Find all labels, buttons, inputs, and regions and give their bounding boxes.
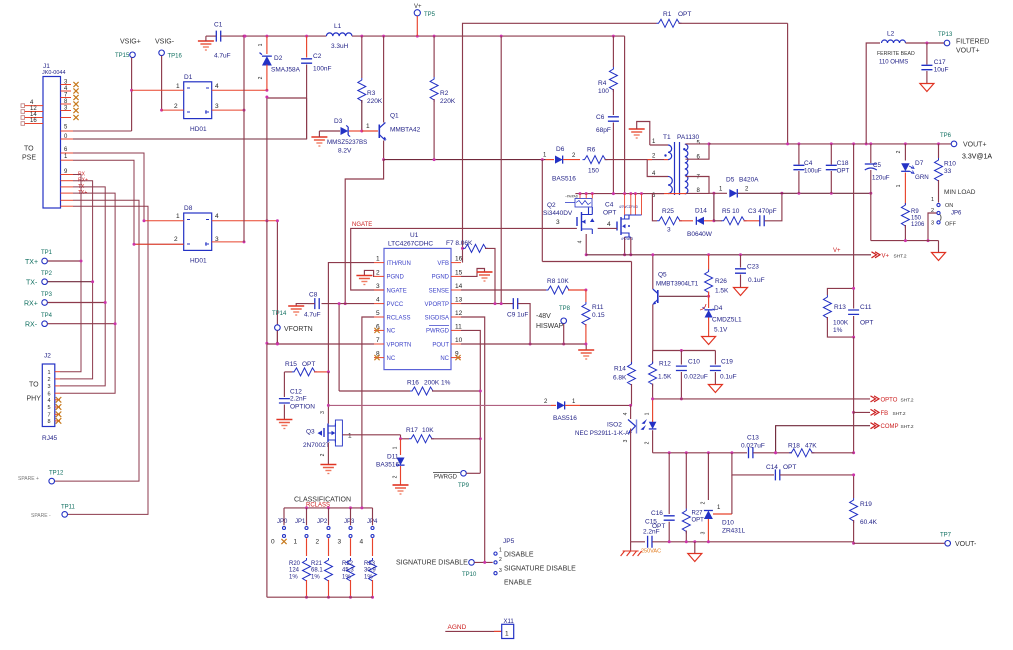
wire VOUT rail from T1 pins5-6 bbox=[709, 143, 711, 145]
wire U1 pin15 PGND to ground bbox=[461, 269, 485, 277]
wire U1 pin5 RCLASS down to classification rail bbox=[362, 317, 374, 508]
svg-text:68.1: 68.1 bbox=[311, 568, 323, 574]
wire C2 bottom to D2 column bbox=[267, 97, 307, 99]
svg-text:AGND: AGND bbox=[448, 624, 467, 631]
svg-text:HISWAP: HISWAP bbox=[536, 323, 564, 330]
wire U1 pin12 SIGDISA to signature disable jumper bbox=[461, 317, 485, 562]
earth ground left of C15 bbox=[630, 542, 632, 551]
resistor R19 60.4K bbox=[853, 475, 855, 498]
svg-text:POUT: POUT bbox=[432, 342, 449, 348]
svg-text:DISABLE: DISABLE bbox=[504, 552, 534, 559]
svg-text:OPTION: OPTION bbox=[290, 404, 315, 411]
svg-text:D5: D5 bbox=[726, 177, 735, 184]
resistor R3 220K bbox=[361, 36, 363, 78]
ground triangle below D11 (red bars) bbox=[393, 484, 409, 486]
svg-text:3: 3 bbox=[48, 384, 51, 390]
svg-text:1: 1 bbox=[376, 256, 380, 263]
svg-text:16: 16 bbox=[30, 118, 37, 124]
wire Q5 base to R26/D4 node bbox=[659, 295, 709, 297]
svg-text:2: 2 bbox=[499, 557, 502, 563]
svg-text:D2: D2 bbox=[274, 55, 283, 62]
svg-text:4: 4 bbox=[48, 398, 51, 404]
svg-text:NC: NC bbox=[387, 329, 396, 335]
svg-text:VPORTN: VPORTN bbox=[387, 342, 412, 348]
wire D6 anode column down to R14 top row bbox=[541, 160, 543, 262]
svg-text:4: 4 bbox=[578, 240, 584, 243]
svg-text:TP8: TP8 bbox=[559, 306, 571, 312]
svg-text:1: 1 bbox=[366, 123, 370, 130]
classification bottom rail to left spine bbox=[267, 596, 373, 598]
svg-text:R5 10: R5 10 bbox=[722, 208, 740, 215]
wire U1 pin1 ITH/RUN to RC network bbox=[328, 263, 374, 372]
svg-text:OPT: OPT bbox=[860, 320, 873, 327]
svg-text:3.3V@1A: 3.3V@1A bbox=[962, 154, 992, 161]
shunt reference D10 ZR431L bbox=[707, 453, 709, 500]
svg-text:SMAJ58A: SMAJ58A bbox=[271, 67, 301, 74]
svg-text:2: 2 bbox=[645, 441, 651, 444]
svg-text:TP6: TP6 bbox=[940, 133, 952, 139]
svg-text:5: 5 bbox=[48, 405, 51, 411]
svg-text:R20: R20 bbox=[289, 561, 301, 567]
svg-text:C17: C17 bbox=[934, 59, 946, 66]
svg-text:R1: R1 bbox=[663, 11, 672, 18]
svg-text:2: 2 bbox=[393, 475, 399, 478]
svg-text:3: 3 bbox=[623, 439, 629, 442]
svg-text:RX-: RX- bbox=[25, 322, 38, 329]
svg-text:1: 1 bbox=[931, 197, 934, 203]
COMP off-sheet arrow bbox=[776, 426, 870, 453]
T1 secondary pins 7-8 join box bbox=[686, 177, 710, 194]
resistor R4 100 bbox=[612, 36, 614, 67]
wire J1 pin0 row to D2/C2 column bbox=[61, 138, 74, 140]
capacitor C6 68pF bbox=[612, 89, 614, 115]
capacitor C19 0.1uF bbox=[714, 351, 716, 365]
svg-text:SHT.2: SHT.2 bbox=[894, 253, 907, 259]
svg-text:JP1: JP1 bbox=[295, 519, 306, 525]
svg-text:MIN LOAD: MIN LOAD bbox=[944, 189, 976, 196]
svg-text:6.8K: 6.8K bbox=[613, 375, 627, 382]
T1 primary pins 4-3 bbox=[664, 159, 668, 161]
primary ground for T1 pin1 bbox=[629, 128, 645, 130]
svg-text:R25: R25 bbox=[662, 208, 674, 215]
svg-text:8: 8 bbox=[48, 419, 51, 425]
svg-text:TP12: TP12 bbox=[49, 471, 64, 477]
svg-text:C4: C4 bbox=[605, 202, 614, 209]
capacitor C2 100nF bbox=[306, 36, 308, 57]
svg-text:1: 1 bbox=[348, 433, 352, 440]
svg-text:PGND: PGND bbox=[387, 275, 405, 281]
svg-text:SHT.2: SHT.2 bbox=[893, 411, 906, 417]
svg-text:TO: TO bbox=[24, 146, 34, 153]
svg-text:ON: ON bbox=[945, 203, 953, 209]
wire drain row: T1 pin3 to Q2/Q4 drains bbox=[575, 193, 664, 195]
svg-text:0: 0 bbox=[271, 539, 275, 546]
svg-text:ITH/RUN: ITH/RUN bbox=[387, 261, 411, 267]
svg-text:V+: V+ bbox=[882, 253, 890, 259]
svg-text:D11: D11 bbox=[387, 454, 399, 461]
svg-text:220K: 220K bbox=[440, 98, 456, 105]
svg-text:FILTERED: FILTERED bbox=[956, 39, 989, 46]
resistor R5 10 bbox=[714, 220, 722, 222]
wire NGATE from U1 pin3 to gates bbox=[351, 228, 577, 290]
wire J1 row to RX+ column bbox=[60, 187, 105, 386]
svg-text:2.2nF: 2.2nF bbox=[643, 529, 660, 536]
capacitor C12 2.2nF OPTION bbox=[283, 372, 285, 397]
svg-text:MMSZ5237BS: MMSZ5237BS bbox=[327, 139, 367, 146]
svg-text:TP11: TP11 bbox=[61, 505, 76, 511]
svg-text:R23: R23 bbox=[364, 561, 376, 567]
svg-text:4: 4 bbox=[376, 297, 380, 304]
svg-text:Q3: Q3 bbox=[306, 429, 315, 436]
wire J1 row to SPARE+ TP12 bbox=[55, 200, 140, 481]
svg-text:3: 3 bbox=[499, 568, 502, 574]
svg-text:0.1uF: 0.1uF bbox=[748, 277, 765, 284]
wire R1 right end down to VOUT rail bbox=[787, 23, 789, 144]
diode D5 B420A bbox=[709, 192, 727, 194]
svg-text:1: 1 bbox=[393, 446, 399, 449]
capacitor C9 1uF bbox=[513, 298, 517, 309]
svg-text:OPT: OPT bbox=[678, 11, 691, 18]
svg-text:3: 3 bbox=[338, 539, 342, 546]
wire U1 pin13 VPORTP row to C9 bbox=[461, 303, 513, 305]
wire J1 pin1 row to bridge D8 pin2 bbox=[61, 159, 74, 161]
svg-text:1: 1 bbox=[258, 43, 264, 46]
resistor R8 10K bbox=[546, 286, 571, 294]
svg-text:R21: R21 bbox=[311, 561, 323, 567]
svg-text:60.4K: 60.4K bbox=[860, 519, 878, 526]
svg-text:TP15: TP15 bbox=[115, 53, 130, 59]
svg-text:D1: D1 bbox=[184, 74, 193, 81]
svg-text:3: 3 bbox=[215, 103, 219, 110]
svg-text:0.027uF: 0.027uF bbox=[741, 443, 765, 450]
test point TP6 VOUT+ bbox=[951, 141, 957, 147]
OPTO rail to off-sheet bbox=[653, 398, 870, 400]
svg-text:100K: 100K bbox=[833, 320, 849, 327]
ferrite bead L2 110 OHMS bbox=[882, 40, 906, 43]
power ground on POUT rail bbox=[585, 344, 587, 350]
wire ITH column to D9 row and Q3 drain bbox=[327, 372, 329, 424]
svg-text:5.1V: 5.1V bbox=[714, 327, 728, 334]
feedback top rail (Q5 emitter) bbox=[653, 350, 716, 352]
svg-text:1: 1 bbox=[176, 83, 180, 90]
svg-text:3: 3 bbox=[376, 283, 380, 290]
svg-text:R14: R14 bbox=[614, 366, 626, 373]
svg-text:220K: 220K bbox=[367, 98, 383, 105]
svg-text:1: 1 bbox=[499, 548, 502, 554]
capacitor C14 OPT bbox=[732, 453, 774, 475]
svg-text:VFB: VFB bbox=[437, 261, 449, 267]
svg-text:NC: NC bbox=[440, 356, 449, 362]
svg-text:B420A: B420A bbox=[739, 177, 759, 184]
svg-text:L1: L1 bbox=[334, 23, 342, 30]
J1 left-side pins to PSE pads bbox=[21, 104, 25, 108]
svg-text:45.3: 45.3 bbox=[342, 568, 354, 574]
svg-text:1206: 1206 bbox=[911, 222, 925, 228]
svg-text:150: 150 bbox=[588, 168, 599, 175]
svg-text:VOUT-: VOUT- bbox=[955, 541, 977, 548]
svg-text:15: 15 bbox=[455, 269, 463, 276]
svg-text:U1: U1 bbox=[410, 232, 419, 239]
wire U1 pin10 POUT rail to R11 bbox=[461, 343, 586, 345]
wire TP15 to J1 pin5 / D1 pin1 bbox=[131, 58, 133, 131]
capacitor C5 120uF polarized bbox=[870, 144, 872, 163]
svg-text:8.2V: 8.2V bbox=[338, 148, 352, 155]
wire left spine D2 column down to VPORTN and classification bbox=[266, 97, 268, 221]
svg-text:C14: C14 bbox=[766, 464, 778, 471]
svg-text:SENSE: SENSE bbox=[429, 288, 449, 294]
wire Q3 source to ground bbox=[327, 443, 329, 465]
svg-text:L2: L2 bbox=[887, 31, 895, 38]
capacitor C1 4.7uF bbox=[205, 36, 207, 41]
svg-text:10: 10 bbox=[455, 337, 463, 344]
svg-text:13: 13 bbox=[455, 297, 463, 304]
svg-text:1: 1 bbox=[48, 370, 51, 376]
svg-text:R10: R10 bbox=[944, 161, 956, 168]
svg-text:124: 124 bbox=[289, 568, 300, 574]
wire Q1 emitter junction down to PVCC bbox=[345, 160, 383, 304]
svg-text:R2: R2 bbox=[440, 90, 449, 97]
svg-text:1%: 1% bbox=[289, 575, 298, 581]
svg-text:250VAC: 250VAC bbox=[641, 549, 661, 555]
svg-text:2.2nF: 2.2nF bbox=[290, 396, 307, 403]
wire U1 pin4 PVCC row to C8 bbox=[322, 303, 375, 305]
svg-text:4: 4 bbox=[215, 213, 219, 220]
svg-text:C1: C1 bbox=[214, 22, 223, 29]
wire long vertical from top rail to VPORTP node bbox=[500, 36, 502, 304]
capacitor C18 OPT bbox=[830, 144, 832, 165]
svg-text:R13: R13 bbox=[834, 304, 846, 311]
svg-text:C23: C23 bbox=[747, 264, 759, 271]
svg-text:OPT: OPT bbox=[603, 210, 616, 217]
svg-text:D10: D10 bbox=[722, 520, 734, 527]
svg-text:TP14: TP14 bbox=[272, 311, 287, 317]
svg-text:5: 5 bbox=[376, 310, 380, 317]
svg-text:100nF: 100nF bbox=[313, 66, 331, 73]
svg-text:150: 150 bbox=[911, 216, 922, 222]
svg-text:3.3uH: 3.3uH bbox=[331, 43, 349, 50]
svg-text:C3 470pF: C3 470pF bbox=[748, 208, 777, 215]
T1 secondary pins 5-6 join box bbox=[686, 144, 710, 159]
U1 NC x-marks bbox=[374, 328, 379, 333]
svg-text:Q2: Q2 bbox=[547, 202, 556, 209]
svg-text:X11: X11 bbox=[504, 619, 515, 625]
svg-text:JP3: JP3 bbox=[344, 519, 355, 525]
test point TP16 bbox=[159, 50, 165, 56]
svg-text:FERRITE BEAD: FERRITE BEAD bbox=[877, 51, 915, 57]
svg-text:1: 1 bbox=[176, 213, 180, 220]
svg-text:JP0: JP0 bbox=[277, 519, 288, 525]
svg-text:RX+: RX+ bbox=[24, 301, 38, 308]
bridge rectifier D1 HD01 bbox=[184, 82, 212, 119]
svg-text:R4: R4 bbox=[598, 80, 607, 87]
svg-text:PGND: PGND bbox=[432, 275, 450, 281]
svg-text:C19: C19 bbox=[721, 359, 733, 366]
ground triangle on secondary rail bbox=[694, 542, 696, 554]
svg-text:SIGDISA: SIGDISA bbox=[425, 315, 449, 321]
wire JP6 pin2 to ground rail bbox=[928, 213, 937, 241]
svg-text:C2: C2 bbox=[313, 53, 322, 60]
svg-text:GRN: GRN bbox=[915, 174, 929, 181]
svg-text:2: 2 bbox=[320, 453, 326, 456]
svg-text:FB: FB bbox=[881, 411, 889, 417]
IC U1 LTC4267CDHC bbox=[384, 248, 451, 369]
svg-text:R3: R3 bbox=[367, 90, 376, 97]
wire J1 row to TX- column bbox=[60, 181, 93, 379]
svg-text:100: 100 bbox=[598, 88, 609, 95]
wire VOUT+ up to L2 bbox=[866, 43, 880, 144]
svg-text:RCLASS: RCLASS bbox=[387, 315, 411, 321]
transistor Q1 MMBTA42 bbox=[362, 130, 378, 132]
svg-text:D7: D7 bbox=[915, 160, 924, 167]
svg-text:MMBT3904LT1: MMBT3904LT1 bbox=[656, 281, 699, 288]
svg-text:JP6: JP6 bbox=[951, 211, 962, 217]
secondary ground rail with Y-cap C15 bbox=[631, 541, 645, 543]
wire TP16 to D1 pin2 bbox=[161, 56, 163, 111]
capacitor C17 10uF bbox=[926, 43, 928, 65]
svg-text:2N7002T: 2N7002T bbox=[303, 442, 330, 449]
svg-text:TX+: TX+ bbox=[25, 259, 38, 266]
svg-text:C4: C4 bbox=[804, 160, 813, 167]
wire U1 pin7 VPORTN rail to left spine bbox=[267, 343, 374, 345]
capacitor C3 470pF bbox=[744, 220, 760, 222]
resistor R10 33 bbox=[938, 144, 940, 158]
svg-text:BAS516: BAS516 bbox=[553, 415, 577, 422]
wire R14 top row bbox=[542, 261, 631, 263]
svg-text:C12: C12 bbox=[290, 389, 302, 396]
wire Q1 emitter row to D6 anode bbox=[384, 159, 546, 161]
svg-text:NGATE: NGATE bbox=[387, 288, 407, 294]
wire TP10 to JP5 pin2 bbox=[474, 561, 492, 563]
svg-text:1%: 1% bbox=[364, 575, 373, 581]
svg-text:4*CWF3: 4*CWF3 bbox=[621, 237, 633, 241]
svg-text:R26: R26 bbox=[715, 278, 727, 285]
svg-text:JP2: JP2 bbox=[317, 519, 328, 525]
svg-text:COMP: COMP bbox=[881, 424, 899, 430]
svg-text:VFORTN: VFORTN bbox=[284, 326, 313, 333]
resistor R27 OPT bbox=[685, 453, 687, 509]
svg-text:Si3440DV: Si3440DV bbox=[543, 210, 573, 217]
svg-text:2: 2 bbox=[174, 103, 178, 110]
wire ISO2 pin3 down to Y-cap rail bbox=[630, 440, 632, 542]
wire J1 row to TX+ column bbox=[60, 175, 81, 372]
svg-text:RJ45: RJ45 bbox=[42, 435, 58, 442]
svg-text:7: 7 bbox=[48, 413, 51, 419]
zener diode D3 MMSZ5237BS 8.2V bbox=[311, 136, 327, 138]
svg-text:1: 1 bbox=[896, 184, 902, 187]
svg-text:68pF: 68pF bbox=[596, 127, 611, 134]
svg-text:TP3: TP3 bbox=[41, 292, 53, 298]
svg-text:TP10: TP10 bbox=[462, 572, 477, 578]
J2 pin stubs bbox=[55, 371, 60, 373]
svg-text:4: 4 bbox=[607, 221, 611, 228]
J1 right-side no-connect pins with x-marks bbox=[61, 84, 72, 86]
svg-text:OPT: OPT bbox=[783, 464, 796, 471]
wire U1 pin2 PGND to ground bbox=[364, 270, 374, 276]
svg-text:16: 16 bbox=[455, 256, 463, 263]
wire J1 row to SPARE- TP11 bbox=[68, 206, 149, 514]
comp rail from opto emitter bbox=[653, 452, 747, 454]
svg-text:2: 2 bbox=[896, 150, 902, 153]
svg-text:C5: C5 bbox=[873, 162, 881, 169]
diode D14 B0640W bbox=[679, 220, 693, 222]
svg-text:Q5: Q5 bbox=[658, 272, 667, 279]
svg-text:4: 4 bbox=[360, 539, 364, 546]
svg-text:C9 1uF: C9 1uF bbox=[507, 312, 528, 319]
resistor R6 150 bbox=[583, 156, 608, 164]
svg-text:0.15: 0.15 bbox=[592, 312, 605, 319]
svg-text:OPTO: OPTO bbox=[881, 397, 898, 403]
FB off-sheet arrow bbox=[854, 411, 870, 413]
diode D11 BAS516 bbox=[400, 439, 402, 455]
resistor R17 10K bbox=[401, 438, 410, 440]
svg-text:R12: R12 bbox=[659, 361, 671, 368]
svg-text:2: 2 bbox=[701, 501, 707, 504]
svg-text:C18: C18 bbox=[837, 160, 849, 167]
wire rail to TP7 bbox=[854, 542, 945, 544]
FB column continues to comp network bbox=[853, 337, 855, 412]
svg-text:100uF: 100uF bbox=[804, 168, 822, 175]
FB column bbox=[853, 144, 855, 289]
svg-text:30.9: 30.9 bbox=[364, 568, 376, 574]
svg-text:PVCC: PVCC bbox=[387, 302, 404, 308]
svg-text:TP7: TP7 bbox=[940, 533, 952, 539]
svg-text:PSE: PSE bbox=[22, 155, 36, 162]
ground triangle at output jumper bbox=[938, 241, 940, 253]
svg-text:CMDZ5L1: CMDZ5L1 bbox=[712, 317, 742, 324]
svg-text:V+: V+ bbox=[414, 4, 422, 10]
resistor R12 1.5K bbox=[652, 351, 654, 364]
svg-text:HD01: HD01 bbox=[190, 126, 207, 133]
svg-text:33: 33 bbox=[944, 168, 952, 175]
svg-text:R6: R6 bbox=[587, 147, 596, 154]
svg-text:OPT: OPT bbox=[302, 361, 315, 368]
test point TP13 FILTERED VOUT+ bbox=[944, 40, 950, 46]
T1 pin 1 wire bbox=[650, 144, 668, 146]
svg-text:D6: D6 bbox=[556, 146, 565, 153]
resistor R11 0.15 bbox=[582, 302, 590, 327]
svg-text:4.7uF: 4.7uF bbox=[304, 312, 321, 319]
resistor R26 1.5K bbox=[708, 255, 710, 270]
svg-text:OFF: OFF bbox=[945, 222, 957, 228]
svg-text:R15: R15 bbox=[285, 361, 297, 368]
capacitor C11 OPT bbox=[853, 288, 855, 308]
svg-text:B0640W: B0640W bbox=[687, 231, 713, 238]
svg-text:T1: T1 bbox=[663, 134, 671, 141]
svg-text:3: 3 bbox=[931, 221, 934, 227]
svg-text:NGATE: NGATE bbox=[352, 222, 372, 228]
wire U1 pin14 SENSE row to R8 bbox=[461, 289, 546, 291]
capacitor C23 0.1uF bbox=[740, 255, 742, 268]
wire L2 to TP13 bbox=[906, 42, 945, 44]
svg-text:14: 14 bbox=[455, 283, 463, 290]
svg-text:JP5: JP5 bbox=[503, 538, 515, 545]
svg-text:6: 6 bbox=[48, 391, 51, 397]
capacitor C13 0.027uF bbox=[749, 447, 753, 458]
svg-text:BA3516: BA3516 bbox=[376, 462, 400, 469]
wire top rail L1 to corner x624.6 bbox=[352, 35, 625, 37]
svg-text:TX-: TX- bbox=[26, 280, 38, 287]
wire D8 pin4 branch to TP14 column bbox=[276, 221, 278, 343]
svg-text:47K: 47K bbox=[805, 443, 817, 450]
resistor R14 6.8K bbox=[628, 362, 636, 387]
svg-text:10uF: 10uF bbox=[934, 67, 949, 74]
svg-text:TP16: TP16 bbox=[168, 54, 183, 60]
svg-text:1%: 1% bbox=[833, 327, 843, 334]
svg-text:V+: V+ bbox=[833, 248, 841, 254]
connector J2 RJ45 (TO PHY) bbox=[42, 364, 55, 427]
wire U1 pin11 PWRGD down to TP9 bbox=[461, 330, 480, 473]
svg-text:2: 2 bbox=[48, 377, 51, 383]
